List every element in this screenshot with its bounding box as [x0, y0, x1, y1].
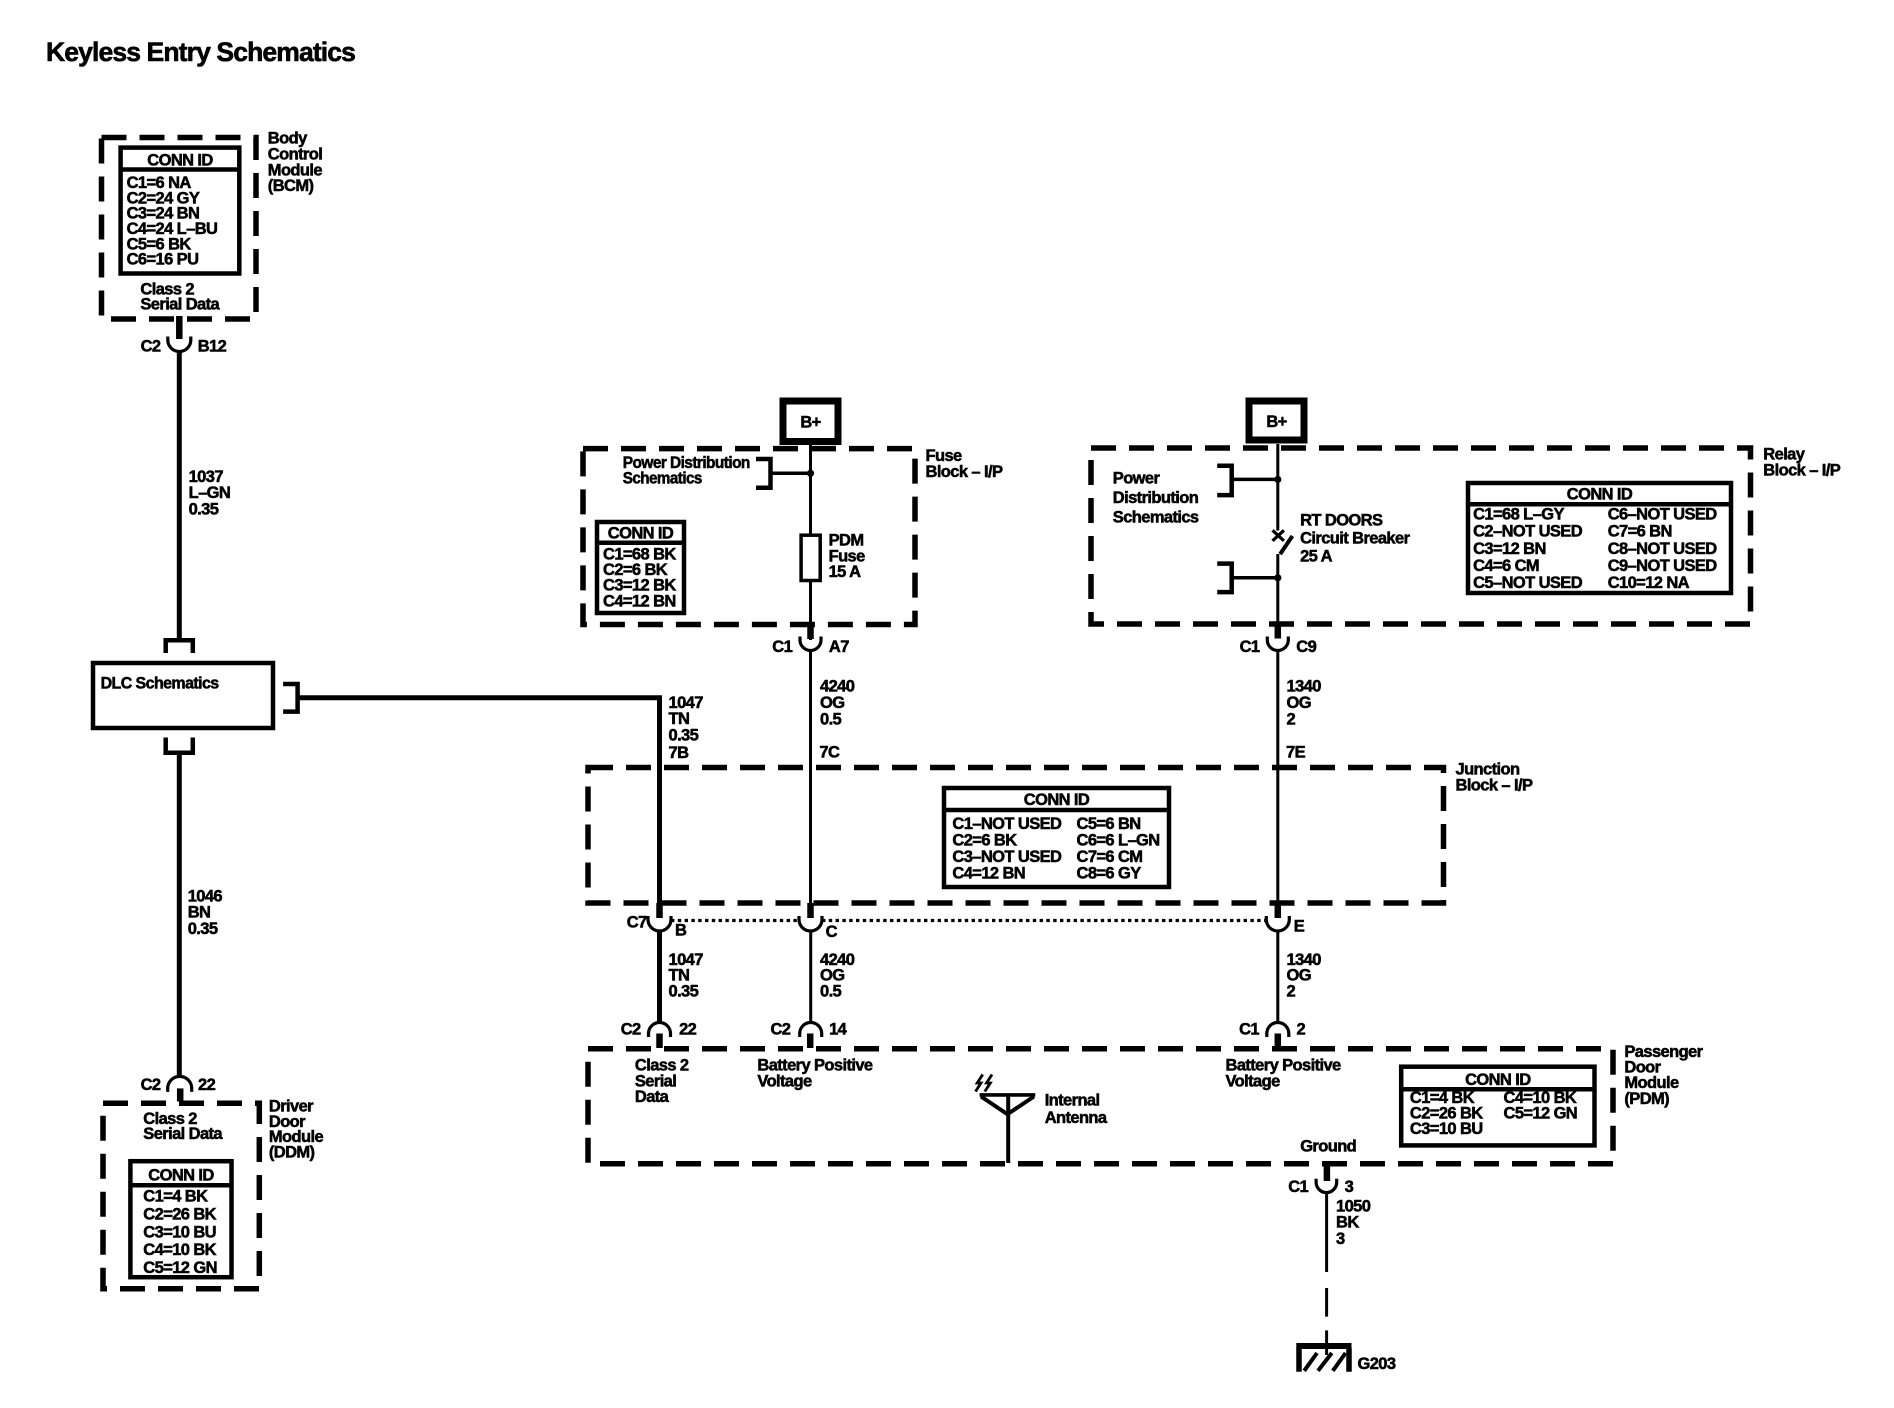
- svg-text:Power: Power: [1113, 470, 1161, 488]
- wire from lower bracket to breaker output: [1232, 576, 1278, 580]
- svg-text:0.35: 0.35: [669, 726, 699, 744]
- wire 4240 OG upper segment: [809, 651, 812, 905]
- svg-text:C8=6 GY: C8=6 GY: [1077, 865, 1142, 883]
- pin label C2 at DDM: [141, 1076, 161, 1094]
- module Relay Block - I/P dashed outline: [1091, 448, 1751, 624]
- svg-text:2: 2: [1287, 982, 1296, 1000]
- PDM CONN ID header label: [1465, 1071, 1531, 1089]
- svg-text:C1: C1: [772, 638, 792, 656]
- connector pin C at junction block: [799, 903, 822, 931]
- svg-text:C3=10 BU: C3=10 BU: [1410, 1120, 1483, 1138]
- svg-text:Data: Data: [635, 1088, 670, 1106]
- svg-text:A7: A7: [829, 638, 849, 656]
- antenna ANT1 internal antenna symbol: [980, 1095, 1036, 1163]
- junction block connector face dotted line: [671, 919, 1267, 922]
- junction CONN ID header label: [1024, 791, 1090, 809]
- pin label C2 at PDM pin 22: [621, 1021, 641, 1039]
- BCM CONN ID table box: [121, 148, 240, 274]
- label Relay Block - I/P: [1763, 446, 1840, 480]
- PDM CONN ID table box: [1401, 1067, 1594, 1146]
- wire B+ vertical to circuit breaker: [1276, 444, 1279, 531]
- svg-text:C4=10 BK: C4=10 BK: [143, 1241, 216, 1259]
- svg-text:G203: G203: [1358, 1355, 1396, 1373]
- label Power Distribution Schematics (relay block): [1113, 470, 1199, 527]
- svg-text:(BCM): (BCM): [268, 177, 314, 195]
- pin label 3 at ground: [1345, 1178, 1354, 1196]
- svg-text:Block – I/P: Block – I/P: [926, 463, 1003, 481]
- DDM connector pin list: [143, 1188, 217, 1278]
- PDM Battery Positive Voltage label (pin 2): [1226, 1057, 1342, 1091]
- wire 1047 TN horizontal segment from DLC to junction block: [298, 698, 660, 905]
- terminal label 7C: [819, 744, 840, 762]
- svg-text:OG: OG: [820, 694, 844, 712]
- BCM CONN ID header label: [147, 152, 213, 170]
- svg-text:Voltage: Voltage: [757, 1072, 812, 1090]
- svg-text:C7: C7: [627, 914, 647, 932]
- svg-text:C6=6 L–GN: C6=6 L–GN: [1077, 831, 1160, 849]
- DLC attachment bracket bottom: [166, 738, 193, 753]
- DLC attachment bracket top: [166, 640, 193, 653]
- pin label E: [1294, 918, 1305, 936]
- value label wire 1050 BK 3: [1336, 1198, 1371, 1248]
- PDM connector pin list column 1: [1410, 1089, 1483, 1138]
- pin label 2 at PDM: [1297, 1021, 1306, 1039]
- value label wire 4240 OG 0.5 (upper): [820, 678, 855, 729]
- module U2 Driver Door Module (DDM) dashed outline: [103, 1103, 259, 1288]
- svg-text:Serial Data: Serial Data: [140, 296, 220, 314]
- value label RT DOORS Circuit Breaker 25 A: [1300, 512, 1410, 566]
- svg-text:0.5: 0.5: [820, 982, 842, 1000]
- connector C2 pin 22 at PDM: [649, 1023, 671, 1048]
- value label wire 1340 OG 2 (upper): [1287, 678, 1322, 729]
- fuse F1 PDM Fuse 15 A symbol: [801, 535, 820, 580]
- svg-text:C: C: [826, 923, 838, 941]
- svg-text:C4=12 BN: C4=12 BN: [603, 592, 676, 610]
- label Fuse Block - I/P: [926, 447, 1003, 481]
- power symbol B+ battery feed (relay block): [1249, 401, 1304, 440]
- svg-text:CONN ID: CONN ID: [147, 152, 213, 170]
- connector C2 pin 14 at PDM: [800, 1023, 822, 1048]
- svg-text:Keyless Entry Schematics: Keyless Entry Schematics: [46, 37, 355, 67]
- wire 1050 BK interrupted segment: [1325, 1288, 1328, 1355]
- DLC right attachment bracket: [283, 684, 298, 712]
- power symbol B+ battery feed (fuse block): [783, 401, 838, 442]
- value label wire 1047 TN 0.35 (upper): [669, 694, 704, 744]
- DDM Class 2 Serial Data label: [143, 1110, 223, 1143]
- value label wire 4240 OG 0.5 (lower): [820, 951, 855, 1000]
- pin label C7: [627, 914, 647, 932]
- connector C1 pin C9 below relay block: [1267, 624, 1288, 651]
- BCM Class 2 Serial Data pin function label: [140, 280, 220, 313]
- value label PDM Fuse 15 A: [829, 532, 866, 581]
- relay CONN ID header label: [1567, 486, 1633, 504]
- svg-text:C9–NOT USED: C9–NOT USED: [1608, 557, 1718, 575]
- svg-text:RT DOORS: RT DOORS: [1300, 512, 1383, 530]
- value label wire 1046 BN 0.35: [188, 888, 223, 938]
- svg-text:15 A: 15 A: [829, 563, 862, 581]
- pin label C1 at PDM pin 2: [1239, 1021, 1259, 1039]
- svg-text:0.5: 0.5: [820, 710, 842, 728]
- svg-text:C7=6 CM: C7=6 CM: [1077, 848, 1143, 866]
- wire from reference bracket to B+ feed: [771, 472, 811, 476]
- relay connector pin list column 1: [1473, 505, 1583, 592]
- DDM CONN ID table box: [130, 1161, 231, 1277]
- pin label 22 at PDM: [679, 1021, 697, 1039]
- svg-text:C6=16 PU: C6=16 PU: [127, 251, 199, 269]
- label G203: [1358, 1355, 1396, 1373]
- ground symbol G203: [1296, 1346, 1351, 1372]
- wire breaker output down to connector C1/C9: [1276, 554, 1279, 624]
- fuse block connector pin list: [603, 546, 676, 611]
- svg-text:Junction: Junction: [1456, 760, 1520, 778]
- terminal label 7E: [1286, 744, 1306, 762]
- module U1 Body Control Module (BCM) dashed outline: [102, 138, 257, 320]
- svg-text:C1: C1: [1288, 1178, 1308, 1196]
- svg-text:3: 3: [1336, 1230, 1345, 1248]
- svg-text:Antenna: Antenna: [1045, 1109, 1108, 1127]
- pin label C9: [1296, 638, 1316, 656]
- svg-text:0.35: 0.35: [188, 920, 218, 938]
- svg-text:CONN ID: CONN ID: [148, 1166, 214, 1184]
- wire 4240 OG lower segment: [809, 931, 812, 1023]
- pin label C1 at C9: [1240, 638, 1260, 656]
- relay block reference bracket upper: [1217, 466, 1232, 495]
- wire 1037 L-GN from BCM C2/B12 to DLC: [177, 352, 182, 641]
- svg-text:CONN ID: CONN ID: [1567, 486, 1633, 504]
- svg-text:Schematics: Schematics: [1113, 509, 1199, 527]
- wire 1340 OG lower segment: [1276, 931, 1279, 1023]
- fuse block reference bracket: [756, 459, 771, 488]
- svg-text:Distribution: Distribution: [1113, 489, 1199, 507]
- circuit breaker CB RT DOORS 25 A symbol: [1273, 530, 1293, 554]
- svg-text:25 A: 25 A: [1300, 548, 1333, 566]
- module Fuse Block - I/P dashed outline: [583, 449, 915, 625]
- label Passenger Door Module (PDM): [1624, 1043, 1703, 1108]
- svg-text:C2–NOT USED: C2–NOT USED: [1473, 523, 1583, 541]
- svg-text:C2: C2: [141, 338, 161, 356]
- connector C1 pin 2 at PDM: [1267, 1023, 1289, 1048]
- svg-text:Block – I/P: Block – I/P: [1763, 462, 1840, 480]
- pin label 22 at DDM: [198, 1076, 216, 1094]
- svg-text:2: 2: [1297, 1021, 1306, 1039]
- svg-text:C3–NOT USED: C3–NOT USED: [952, 848, 1062, 866]
- svg-text:C1: C1: [1240, 638, 1260, 656]
- svg-text:E: E: [1294, 918, 1305, 936]
- svg-text:CONN ID: CONN ID: [608, 524, 674, 542]
- title Keyless Entry Schematics: [46, 37, 355, 67]
- svg-text:2: 2: [1287, 710, 1296, 728]
- relay CONN ID table box: [1468, 483, 1731, 593]
- connector C2 pin 22 at DDM: [168, 1076, 192, 1101]
- DDM CONN ID header label: [148, 1166, 214, 1184]
- PDM Ground label: [1300, 1138, 1356, 1156]
- svg-text:C2: C2: [770, 1021, 790, 1039]
- svg-text:Internal: Internal: [1045, 1091, 1100, 1109]
- svg-text:7E: 7E: [1286, 744, 1306, 762]
- svg-text:C5=12 GN: C5=12 GN: [1504, 1104, 1578, 1122]
- pin label 14 at PDM: [829, 1021, 848, 1039]
- svg-text:7B: 7B: [669, 744, 690, 762]
- relay block reference bracket lower: [1217, 564, 1232, 593]
- svg-text:DLC Schematics: DLC Schematics: [101, 675, 219, 693]
- svg-text:(PDM): (PDM): [1624, 1090, 1669, 1108]
- label DLC Schematics: [101, 675, 219, 693]
- svg-text:B+: B+: [1266, 413, 1286, 431]
- component DLC Schematics reference box: [93, 663, 273, 728]
- svg-text:0.35: 0.35: [189, 500, 219, 518]
- svg-text:C1=4 BK: C1=4 BK: [143, 1188, 208, 1206]
- connector C2 pin B12 at BCM: [168, 316, 191, 352]
- svg-text:C5–NOT USED: C5–NOT USED: [1473, 574, 1583, 592]
- relay connector pin list column 2: [1608, 505, 1718, 592]
- label Power Distribution Schematics (fuse block): [623, 454, 750, 488]
- svg-text:C5=12 GN: C5=12 GN: [143, 1259, 217, 1277]
- wire from upper bracket to breaker feed: [1232, 478, 1278, 482]
- wire B+ vertical into fuse: [809, 444, 812, 535]
- svg-text:C2: C2: [621, 1021, 641, 1039]
- pin label B12: [198, 338, 227, 356]
- junction connector pin list column 2: [1077, 815, 1160, 883]
- svg-text:C1=68 L–GY: C1=68 L–GY: [1473, 505, 1564, 523]
- connector C1 pin A7 below fuse block: [800, 625, 821, 651]
- label Junction Block - I/P: [1456, 760, 1533, 794]
- junction CONN ID table box: [944, 788, 1169, 887]
- connector C7 pin B at junction block: [648, 903, 671, 931]
- svg-text:C4=12 BN: C4=12 BN: [952, 865, 1025, 883]
- BCM connector pin list: [127, 174, 218, 269]
- svg-text:C8–NOT USED: C8–NOT USED: [1608, 540, 1718, 558]
- svg-text:Serial Data: Serial Data: [143, 1125, 223, 1143]
- junction node dot at B+ feed: [807, 470, 814, 477]
- svg-text:C10=12 NA: C10=12 NA: [1608, 574, 1690, 592]
- label Internal Antenna: [1045, 1091, 1108, 1127]
- pin label C1 at ground: [1288, 1178, 1308, 1196]
- connector C1 pin 3 ground output: [1316, 1164, 1337, 1193]
- wire from fuse to connector C1/A7: [809, 581, 812, 641]
- svg-text:22: 22: [198, 1076, 216, 1094]
- label Body Control Module (BCM): [268, 130, 323, 195]
- svg-text:C3=10 BU: C3=10 BU: [143, 1223, 216, 1241]
- svg-text:3: 3: [1345, 1178, 1354, 1196]
- svg-text:C2=26 BK: C2=26 BK: [143, 1205, 216, 1223]
- value label wire 1037 L-GN 0.35: [189, 468, 231, 518]
- PDM Class 2 Serial Data label: [635, 1057, 689, 1107]
- svg-text:CONN ID: CONN ID: [1024, 791, 1090, 809]
- svg-text:Voltage: Voltage: [1226, 1072, 1281, 1090]
- svg-text:Schematics: Schematics: [623, 470, 702, 488]
- antenna signal waves glyph: [976, 1075, 993, 1092]
- value label wire 1340 OG 2 (lower): [1287, 951, 1322, 1000]
- svg-text:B: B: [675, 921, 687, 939]
- svg-text:C2=6 BK: C2=6 BK: [952, 831, 1017, 849]
- svg-text:4240: 4240: [820, 678, 855, 696]
- svg-text:C6–NOT USED: C6–NOT USED: [1608, 505, 1718, 523]
- fuse block CONN ID table box: [597, 522, 684, 613]
- wire 1340 OG upper segment: [1276, 651, 1279, 905]
- pin label C2 at PDM pin 14: [770, 1021, 790, 1039]
- svg-text:1340: 1340: [1287, 678, 1322, 696]
- svg-text:C2: C2: [141, 1076, 161, 1094]
- svg-text:OG: OG: [1287, 694, 1311, 712]
- connector pin E at junction block: [1266, 903, 1289, 931]
- svg-text:Ground: Ground: [1300, 1138, 1356, 1156]
- svg-text:14: 14: [829, 1021, 848, 1039]
- svg-text:Circuit Breaker: Circuit Breaker: [1300, 530, 1410, 548]
- PDM connector pin list column 2: [1504, 1089, 1578, 1123]
- svg-text:22: 22: [679, 1021, 697, 1039]
- svg-text:Block – I/P: Block – I/P: [1456, 777, 1533, 795]
- pin label C2: [141, 338, 161, 356]
- module U3 Passenger Door Module (PDM) dashed outline: [588, 1049, 1613, 1164]
- svg-text:7C: 7C: [819, 744, 840, 762]
- svg-text:C9: C9: [1296, 638, 1316, 656]
- svg-text:C1–NOT USED: C1–NOT USED: [952, 815, 1062, 833]
- wire 1047 TN lower segment: [657, 931, 662, 1023]
- label Driver Door Module (DDM): [269, 1097, 324, 1161]
- pin label A7: [829, 638, 849, 656]
- svg-text:C5=6 BN: C5=6 BN: [1077, 815, 1141, 833]
- svg-text:(DDM): (DDM): [269, 1144, 315, 1162]
- svg-text:C3=12 BN: C3=12 BN: [1473, 540, 1546, 558]
- svg-text:0.35: 0.35: [669, 982, 699, 1000]
- svg-text:C1: C1: [1239, 1021, 1259, 1039]
- fuse block CONN ID header label: [608, 524, 674, 542]
- PDM Battery Positive Voltage label (pin 14): [757, 1057, 873, 1091]
- module Junction Block - I/P dashed outline: [588, 768, 1444, 904]
- svg-text:B+: B+: [800, 414, 820, 432]
- junction connector pin list column 1: [952, 815, 1062, 883]
- svg-text:C7=6 BN: C7=6 BN: [1608, 523, 1672, 541]
- junction node dot lower at breaker: [1274, 574, 1281, 581]
- junction node dot upper at breaker: [1274, 476, 1281, 483]
- svg-text:B12: B12: [198, 338, 227, 356]
- svg-text:CONN ID: CONN ID: [1465, 1071, 1531, 1089]
- pin label B: [675, 921, 687, 939]
- value label wire 1047 TN 0.35 (lower): [669, 951, 704, 1000]
- pin label C: [826, 923, 838, 941]
- pin label C1 at A7: [772, 638, 792, 656]
- terminal label 7B: [669, 744, 690, 762]
- svg-text:C4=6 CM: C4=6 CM: [1473, 557, 1539, 575]
- wire 1046 BN from DLC down to DDM: [177, 753, 182, 1078]
- wire 1050 BK to ground: [1325, 1193, 1328, 1272]
